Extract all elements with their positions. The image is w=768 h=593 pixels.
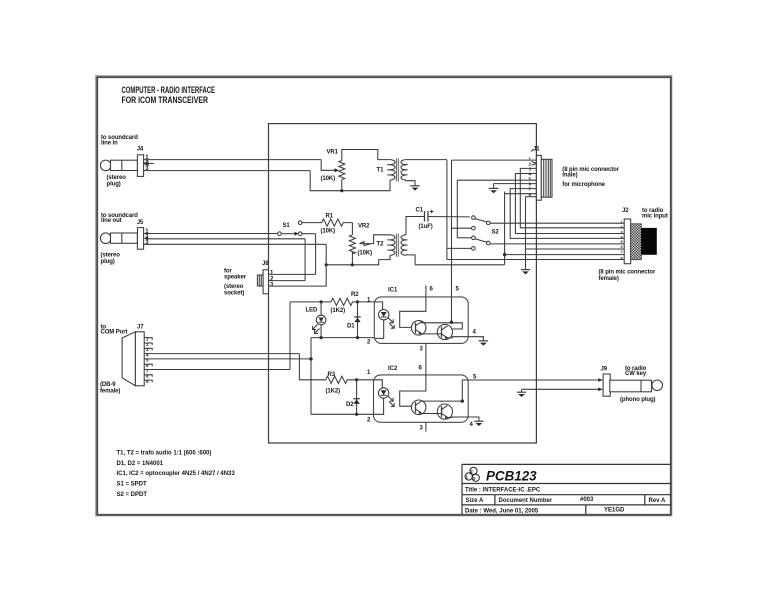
svg-text:D1, D2 = 1N4001: D1, D2 = 1N4001 — [117, 461, 164, 467]
svg-text:T1: T1 — [377, 168, 385, 174]
svg-text:line out: line out — [101, 218, 122, 224]
svg-text:S1 = SPDT: S1 = SPDT — [117, 482, 148, 488]
svg-text:speaker: speaker — [224, 275, 247, 281]
svg-text:J4: J4 — [137, 146, 144, 152]
svg-text:1: 1 — [621, 221, 623, 225]
svg-text:plug): plug) — [107, 181, 121, 187]
svg-text:6: 6 — [621, 245, 623, 249]
svg-text:line in: line in — [101, 140, 118, 146]
svg-text:D2: D2 — [346, 402, 354, 408]
svg-text:male): male) — [562, 172, 577, 178]
svg-text:J2: J2 — [622, 208, 629, 214]
svg-text:COM Port: COM Port — [101, 330, 128, 336]
svg-text:R1: R1 — [326, 214, 334, 220]
svg-text:(1K2): (1K2) — [331, 308, 346, 314]
svg-text:S2 = DPDT: S2 = DPDT — [117, 492, 148, 498]
svg-text:5: 5 — [621, 240, 623, 244]
svg-text:(1K2): (1K2) — [326, 389, 341, 395]
svg-text:Title : INTERFACE-IC .EPC: Title : INTERFACE-IC .EPC — [465, 488, 541, 494]
svg-text:(10K): (10K) — [321, 229, 336, 235]
svg-text:S1: S1 — [283, 223, 291, 229]
svg-text:T2: T2 — [377, 242, 385, 248]
svg-text:COMPUTER - RADIO INTERFACE: COMPUTER - RADIO INTERFACE — [122, 85, 216, 95]
svg-text:female): female) — [100, 389, 120, 395]
svg-text:mic input: mic input — [642, 214, 668, 220]
svg-text:J9: J9 — [601, 367, 608, 373]
svg-text:(stereo: (stereo — [101, 253, 121, 259]
svg-text:female): female) — [599, 276, 619, 282]
svg-text:R2: R2 — [351, 292, 359, 298]
svg-text:Rev A: Rev A — [649, 498, 666, 504]
svg-text:(stereo: (stereo — [224, 284, 244, 290]
svg-text:3: 3 — [621, 230, 623, 234]
svg-text:Document Number: Document Number — [499, 498, 553, 504]
svg-text:(8 pin mic connector: (8 pin mic connector — [599, 270, 656, 276]
svg-text:for microphone: for microphone — [562, 182, 605, 188]
svg-text:Size A: Size A — [466, 498, 484, 504]
svg-text:(10K): (10K) — [358, 251, 373, 257]
svg-text:PCB123: PCB123 — [486, 469, 537, 484]
svg-text:plug): plug) — [101, 259, 115, 265]
svg-text:Date : Wed, June 01, 2005: Date : Wed, June 01, 2005 — [465, 508, 539, 514]
svg-text:C1: C1 — [416, 208, 424, 214]
svg-text:(10K): (10K) — [321, 176, 336, 182]
svg-text:(stereo: (stereo — [107, 175, 127, 181]
svg-text:7: 7 — [621, 250, 623, 254]
svg-text:(1uF): (1uF) — [419, 224, 433, 230]
svg-text:S2: S2 — [492, 230, 500, 236]
svg-text:YE1GD: YE1GD — [604, 508, 625, 514]
svg-text:IC1, IC2 = optocoupler 4N25 /: IC1, IC2 = optocoupler 4N25 / 4N27 / 4N3… — [117, 471, 236, 477]
svg-text:D1: D1 — [347, 324, 355, 330]
svg-text:8: 8 — [621, 256, 623, 260]
svg-text:(phono plug): (phono plug) — [620, 397, 656, 403]
svg-text:J8: J8 — [262, 261, 269, 267]
svg-text:J5: J5 — [137, 220, 144, 226]
svg-text:2: 2 — [621, 226, 623, 230]
svg-text:FOR ICOM TRANSCEIVER: FOR ICOM TRANSCEIVER — [122, 95, 209, 105]
svg-text:CW key: CW key — [625, 371, 647, 377]
svg-text:VR1: VR1 — [327, 150, 339, 156]
svg-text:VR2: VR2 — [358, 224, 370, 230]
svg-text:IC1: IC1 — [388, 288, 398, 294]
svg-text:(DB-9: (DB-9 — [100, 382, 116, 388]
svg-text:T1, T2 = trafo audio 1:1 (60: T1, T2 = trafo audio 1:1 (600 :600) — [117, 451, 212, 457]
svg-text:LED: LED — [306, 308, 318, 314]
svg-text:socket): socket) — [224, 291, 244, 297]
svg-text:IC2: IC2 — [388, 366, 398, 372]
svg-text:#003: #003 — [580, 497, 594, 503]
svg-text:for: for — [224, 268, 232, 274]
svg-text:J7: J7 — [137, 325, 144, 331]
